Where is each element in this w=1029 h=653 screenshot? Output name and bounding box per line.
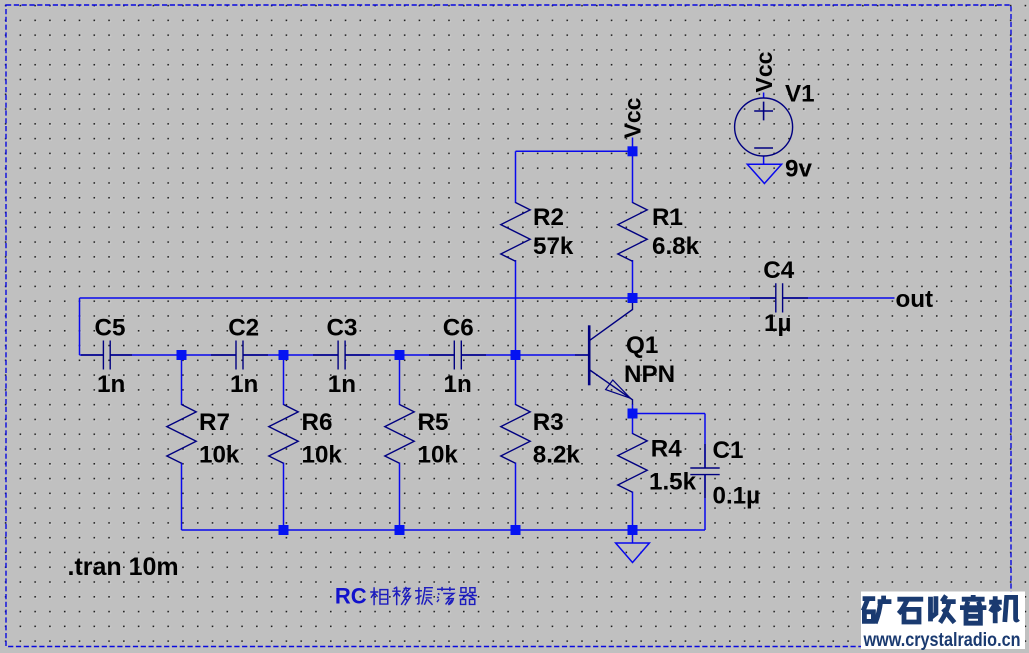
wire R5 bottom lead [399, 463, 401, 531]
wire R7 bottom lead [181, 463, 183, 531]
watermark char shi [897, 599, 923, 622]
node A [177, 350, 187, 360]
svg-text:10k: 10k [418, 442, 459, 469]
svg-text:R2: R2 [533, 204, 564, 231]
wire V1 top stub [763, 93, 765, 99]
svg-text:C2: C2 [228, 315, 259, 342]
wire R3 top lead [515, 355, 517, 405]
transistor Q1 base stub [575, 354, 589, 356]
svg-text:1n: 1n [444, 371, 472, 398]
resistor R4 body [618, 434, 647, 493]
svg-text:8.2k: 8.2k [533, 442, 581, 469]
wire emitter to C1 horizontal [633, 413, 706, 415]
resistor R7 body [167, 405, 196, 464]
wire R6 bottom lead [283, 463, 285, 531]
node C [395, 350, 405, 360]
capacitor C3 body [313, 341, 370, 370]
wire node B to C3 [284, 354, 339, 356]
svg-text:57k: 57k [533, 233, 574, 260]
svg-text:www.crystalradio.cn: www.crystalradio.cn [863, 630, 1021, 651]
title char dang [437, 587, 455, 605]
svg-text:1n: 1n [230, 371, 258, 398]
svg-text:V1: V1 [785, 81, 815, 108]
svg-text:R3: R3 [533, 409, 564, 436]
wire output net left span [80, 297, 777, 299]
capacitor C4 body [750, 283, 808, 312]
svg-text:C5: C5 [95, 315, 126, 342]
svg-text:10k: 10k [199, 442, 240, 469]
transistor Q1 emitter lead [590, 370, 633, 405]
wire C2 to node B [243, 354, 283, 356]
node bottom R3 [511, 525, 521, 535]
node D [511, 350, 521, 360]
wire Vcc flag stub [632, 138, 634, 152]
svg-text:R1: R1 [652, 204, 683, 231]
wire collector stub [632, 298, 634, 302]
watermark char shou [931, 596, 956, 623]
resistor R1 body [618, 203, 647, 262]
svg-text:C6: C6 [443, 315, 474, 342]
wire R2 top lead [515, 151, 517, 203]
watermark char ji [989, 596, 1018, 623]
resistor R5 body [385, 405, 414, 464]
svg-text:C3: C3 [327, 315, 358, 342]
wire Q1 ground stub [632, 530, 634, 543]
title char zhen [415, 587, 433, 605]
wire C3 to node C [345, 354, 399, 356]
wire base [516, 354, 589, 356]
svg-text:0.1µ: 0.1µ [713, 483, 761, 510]
wire output net right span [782, 297, 894, 299]
node bottom R5 [395, 525, 405, 535]
svg-text:C1: C1 [713, 437, 744, 464]
svg-text:R5: R5 [418, 409, 449, 436]
node emitter [628, 409, 638, 419]
node B [279, 350, 289, 360]
transistor Q1 base bar [588, 325, 591, 385]
wire bottom rail [182, 529, 706, 531]
node bottom R4/ground [628, 525, 638, 535]
voltage source V1 circle [735, 98, 793, 156]
svg-text:Vcc: Vcc [751, 51, 777, 92]
resistor R6 body [269, 405, 298, 464]
svg-text:1µ: 1µ [764, 310, 791, 337]
watermark panel [861, 592, 1025, 650]
wire R5 top lead [399, 355, 401, 405]
wire feedback riser [79, 298, 81, 355]
wire node C to C6 [400, 354, 455, 356]
title char yi [392, 587, 410, 605]
wire C5 to node A [110, 354, 181, 356]
svg-text:R4: R4 [651, 436, 682, 463]
transistor Q1 collector lead [590, 302, 633, 341]
resistor R2 body [501, 203, 530, 262]
watermark char yin [960, 595, 986, 623]
wire C6 to node D [461, 354, 515, 356]
wire C1 bottom lead [704, 475, 706, 531]
wire emitter node to R4 [632, 414, 634, 435]
svg-text:Q1: Q1 [626, 332, 658, 359]
ground under emitter network [616, 543, 650, 563]
capacitor C6 body [429, 341, 486, 370]
watermark char kuang [863, 596, 892, 624]
node junction collector/output [628, 293, 638, 303]
wire R3 bottom lead [515, 463, 517, 531]
wire emitter stub [632, 404, 634, 414]
wire node A to C2 [182, 354, 237, 356]
svg-text:RC: RC [335, 584, 367, 609]
svg-text:1n: 1n [328, 371, 356, 398]
V1 plus sign [754, 102, 773, 121]
transistor Q1 emitter arrow [606, 380, 631, 398]
wire V1 bottom stub [763, 156, 765, 165]
svg-text:1n: 1n [97, 371, 125, 398]
wire R2 bottom lead [515, 260, 517, 355]
node junction top bias [628, 146, 638, 156]
resistor R3 body [501, 405, 530, 464]
svg-text:10k: 10k [302, 442, 343, 469]
wire top bias rail [516, 150, 633, 152]
svg-text:C4: C4 [763, 257, 794, 284]
svg-text:9v: 9v [785, 156, 812, 183]
svg-text:R7: R7 [199, 409, 230, 436]
wire R1 bottom lead [632, 260, 634, 298]
wire R1 top lead [632, 151, 634, 203]
svg-text:6.8k: 6.8k [652, 233, 700, 260]
wire R6 top lead [283, 355, 285, 405]
ground under V1 [747, 164, 781, 183]
wire R7 top lead [181, 355, 183, 405]
wire R4 bottom lead [632, 492, 634, 531]
wire C5 left lead [80, 354, 104, 356]
svg-text:NPN: NPN [624, 361, 675, 388]
wire C1 top lead [704, 414, 706, 469]
svg-text:1.5k: 1.5k [649, 469, 697, 496]
node bottom R6 [279, 525, 289, 535]
svg-text:Vcc: Vcc [619, 97, 645, 138]
svg-text:R6: R6 [302, 409, 333, 436]
capacitor C2 body [211, 341, 268, 370]
title char qi [459, 588, 477, 605]
V1 minus sign [754, 147, 773, 149]
title char xiang [370, 587, 388, 605]
svg-text:.tran 10m: .tran 10m [68, 553, 179, 581]
capacitor C5 body [81, 341, 132, 370]
capacitor C1 body [690, 444, 719, 498]
svg-text:out: out [896, 286, 934, 313]
